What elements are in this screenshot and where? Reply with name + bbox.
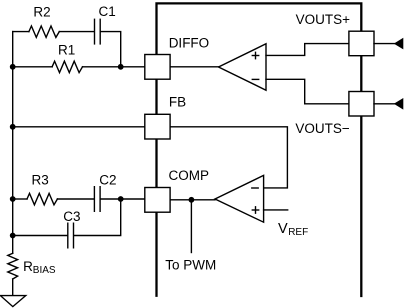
wire DIFFO to op-amp U1 [170,66,219,68]
junction node R3 rail [10,196,16,202]
IC box outline [157,3,362,296]
capacitor C1 [95,19,101,44]
wire VOUTS- to connector [374,103,395,105]
connector arrow VOUTS+ [394,38,404,50]
svg-text:R3: R3 [32,173,49,188]
pin VOUTS- [349,92,374,117]
wire C3 to node [74,199,121,236]
wire U1 minus input to VOUTS- [266,79,349,104]
wire C1 to node [101,32,121,67]
svg-text:COMP: COMP [169,168,210,183]
wire VOUTS+ to connector [374,43,395,45]
label VREF [278,221,308,238]
wire U2 plus input VREF stub [264,209,288,211]
U2 plus input marking [252,207,258,213]
svg-text:VOUTS+: VOUTS+ [296,12,351,27]
capacitor C3 [68,223,74,248]
svg-text:R2: R2 [33,4,50,19]
junction node FB rail [10,124,16,130]
op-amp U2 [215,175,264,222]
pin VOUTS+ [349,31,374,56]
pin COMP [145,188,170,213]
junction node R1 left rail [10,64,16,70]
junction node C2/C3 [118,196,124,202]
wire RBIAS to ground [12,279,14,296]
capacitor C2 [94,187,100,212]
U1 minus input marking [252,78,258,80]
pin DIFFO [145,55,170,80]
svg-text:C1: C1 [99,4,116,19]
wire C3 line left [13,235,67,237]
resistor R2 [29,26,59,37]
svg-text:V: V [278,221,288,237]
U1 plus input marking [252,52,258,58]
svg-text:C3: C3 [63,209,80,224]
svg-text:DIFFO: DIFFO [169,35,210,50]
resistor RBIAS [8,253,18,279]
wire R2/C1 branch left [13,31,29,33]
wire R2 to C1 [59,31,94,33]
wire C2 to COMP [101,198,144,200]
U2 minus input marking [252,187,258,189]
op-amp U1 [219,44,267,90]
resistor R1 [52,61,82,72]
svg-text:REF: REF [288,227,308,238]
svg-text:FB: FB [169,94,186,109]
wire R1 line left [13,66,52,68]
junction node C3 rail [10,233,16,239]
svg-text:C2: C2 [99,173,116,188]
svg-text:VOUTS−: VOUTS− [295,121,350,136]
wire FB line [13,126,145,128]
svg-text:R1: R1 [58,43,75,58]
resistor R3 [27,193,57,204]
wire left rail [12,32,14,254]
wire R3 to C2 [57,198,93,200]
ground [0,296,25,307]
label RBIAS [23,259,56,276]
wire To PWM drop [190,200,192,253]
wire R3 line left [13,198,27,200]
junction node COMP output [189,197,195,203]
wire FB to op-amp U2 minus input [170,127,287,188]
svg-text:BIAS: BIAS [33,265,56,276]
wire U1 plus input to VOUTS+ [266,44,349,56]
svg-text:To PWM: To PWM [165,258,216,273]
connector arrow VOUTS- [394,98,404,110]
wire R1 to DIFFO [83,66,145,68]
pin FB [145,114,170,139]
svg-text:R: R [23,259,33,274]
wire COMP to op-amp U2 output [170,199,215,201]
junction node R1/C1 [118,64,124,70]
